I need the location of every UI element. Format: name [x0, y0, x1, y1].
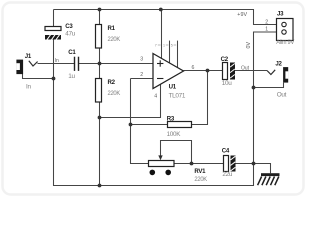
- wire output pin 6 to C2: [184, 70, 223, 72]
- svg-text:7: 7: [155, 43, 157, 47]
- wire R2 bottom to ground rail: [99, 102, 101, 186]
- pin 1 stub: [169, 41, 171, 64]
- svg-text:100K: 100K: [167, 131, 182, 138]
- connector J2 output jack: [267, 61, 288, 99]
- svg-text:2: 2: [140, 72, 143, 78]
- svg-text:Out: Out: [241, 65, 250, 71]
- wire pin 7 to +9V rail: [161, 10, 163, 59]
- U1 pin 7 1 5 numbers: [155, 43, 173, 47]
- resistor R3: [167, 115, 192, 138]
- svg-text:0V: 0V: [246, 42, 252, 49]
- svg-text:In: In: [26, 83, 31, 90]
- capacitor C2: [221, 56, 250, 87]
- svg-text:RV1: RV1: [194, 168, 206, 175]
- svg-text:220K: 220K: [108, 36, 121, 43]
- svg-text:Out: Out: [277, 92, 287, 99]
- wire C4 right to 0V line: [236, 163, 254, 165]
- svg-text:C4: C4: [222, 148, 230, 155]
- wire RV1 right terminal to C4: [174, 163, 224, 165]
- svg-text:C3: C3: [65, 23, 73, 30]
- junction wiper-RV1 terminal: [190, 162, 194, 166]
- svg-text:J1: J1: [25, 53, 32, 60]
- J3 pin 2 circle: [282, 22, 286, 26]
- wire feedback vertical pin2 to RV1: [131, 79, 149, 164]
- svg-text:R3: R3: [167, 115, 175, 122]
- potentiometer RV1: [149, 155, 208, 183]
- svg-text:J3: J3: [277, 11, 284, 18]
- wire R1 bottom lead: [99, 48, 101, 64]
- connector J3 power: [265, 11, 295, 46]
- svg-text:5: 5: [171, 43, 173, 47]
- U1 pin number tick marks: [158, 44, 176, 46]
- junction C4-0V: [252, 162, 256, 166]
- junction J2 sleeve-0V: [252, 86, 256, 90]
- J3 pin 1 circle: [282, 30, 286, 34]
- wire op-amp pin 2: [131, 78, 154, 80]
- wire pin 4 to ground line: [100, 84, 161, 117]
- junction pin4-ground line: [98, 116, 102, 120]
- svg-text:1u: 1u: [68, 73, 75, 80]
- svg-text:C1: C1: [68, 49, 76, 56]
- connector J1 input jack: [16, 53, 59, 91]
- wire C2 out to J2: [235, 70, 267, 72]
- junction output-R3: [206, 69, 210, 73]
- capacitor C3: [45, 23, 76, 40]
- svg-text:Alim 9V: Alim 9V: [276, 39, 295, 46]
- svg-text:C2: C2: [221, 56, 229, 63]
- svg-text:2: 2: [265, 19, 268, 25]
- svg-text:U1: U1: [169, 83, 177, 90]
- wire C3 bottom to ground rail: [53, 40, 55, 187]
- svg-text:220K: 220K: [108, 90, 121, 97]
- resistor R1: [96, 25, 121, 49]
- svg-text:220K: 220K: [194, 176, 207, 183]
- svg-text:1: 1: [163, 43, 165, 47]
- wire RV1 wiper loop: [161, 141, 192, 164]
- svg-text:R2: R2: [108, 79, 116, 86]
- svg-text:10u: 10u: [222, 80, 233, 87]
- junction node A bias divider input: [98, 62, 102, 66]
- svg-text:J2: J2: [275, 61, 282, 68]
- RV1 terminal dot right: [165, 170, 171, 176]
- junction feedback-R3: [129, 123, 133, 127]
- junction rail-pin7: [159, 8, 163, 12]
- svg-text:6: 6: [192, 65, 195, 71]
- wire ground symbol branch: [254, 164, 271, 174]
- capacitor C1: [68, 49, 78, 80]
- wire 0V net from J3 pin1 down right side: [254, 32, 282, 186]
- RV1 terminal dot left: [150, 170, 156, 176]
- pin 5 stub: [177, 41, 179, 68]
- svg-text:+9V: +9V: [237, 12, 247, 18]
- junction R2 bottom-ground rail: [98, 184, 102, 188]
- wire J1 tip to C1: [38, 63, 75, 65]
- op-amp U1: [140, 43, 194, 99]
- svg-text:R1: R1: [108, 25, 116, 32]
- wire R3 right lead up to output: [192, 71, 208, 125]
- resistor R2: [96, 79, 121, 103]
- svg-text:22u: 22u: [222, 171, 233, 178]
- svg-text:TL071: TL071: [169, 92, 186, 99]
- svg-text:4: 4: [154, 94, 157, 100]
- wire R2 top lead: [99, 64, 101, 79]
- wire J1 sleeve to ground: [23, 74, 54, 79]
- wire R3 left lead: [131, 124, 168, 126]
- wire C1 to op-amp pin 3: [79, 63, 154, 65]
- svg-text:47u: 47u: [65, 30, 76, 37]
- wire +9V rail: [54, 10, 282, 25]
- wire bottom ground rail: [54, 185, 254, 187]
- capacitor C4: [222, 148, 236, 178]
- junction rail-R1: [98, 8, 102, 12]
- junction J1 sleeve-ground: [52, 77, 56, 81]
- wire C3 top lead: [53, 10, 55, 27]
- ground symbol: [258, 173, 280, 185]
- svg-text:3: 3: [140, 56, 143, 62]
- svg-text:1: 1: [265, 27, 268, 33]
- wire R1 top lead: [99, 10, 101, 25]
- svg-text:In: In: [55, 58, 59, 64]
- wire J2 sleeve to 0V line: [254, 83, 284, 88]
